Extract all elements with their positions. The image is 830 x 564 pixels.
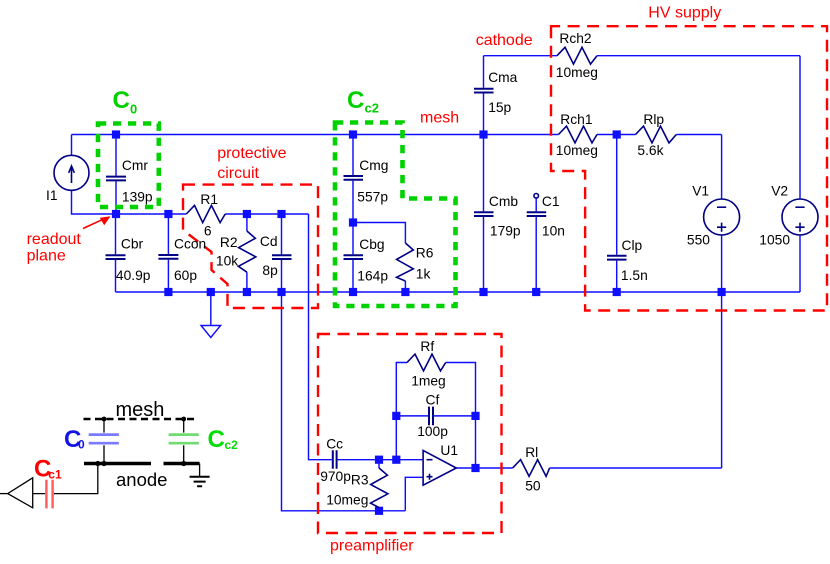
wire V2 top riser [799, 56, 801, 199]
svg-text:15p: 15p [488, 100, 511, 115]
svg-text:139p: 139p [122, 190, 153, 205]
voltage source V1 [704, 199, 740, 235]
capacitor Cbr [106, 255, 126, 259]
wire R3 bottom row [282, 292, 406, 511]
capacitor Clp [607, 256, 627, 260]
svg-text:0: 0 [78, 438, 85, 452]
readout plane arrow [83, 219, 103, 228]
svg-text:550: 550 [687, 232, 710, 247]
capacitor Cd [272, 255, 292, 259]
svg-text:c2: c2 [225, 438, 239, 452]
node output [471, 464, 479, 472]
wire Cma leads [483, 56, 485, 135]
mini capacitor Cc1 plates [46, 480, 52, 509]
resistor Rl [513, 460, 550, 477]
node Cf right [471, 412, 479, 420]
node bus Cd [277, 288, 285, 296]
resistor Rf [407, 354, 446, 371]
resistor R6 [397, 243, 414, 281]
svg-text:U1: U1 [440, 443, 458, 458]
wire bottom bus [116, 291, 801, 293]
svg-text:R3: R3 [351, 473, 369, 488]
resistor R2 [238, 231, 255, 272]
svg-text:cathode: cathode [476, 32, 533, 49]
red dashed box protective circuit [183, 185, 318, 308]
svg-text:readout: readout [27, 231, 82, 248]
svg-text:HV supply: HV supply [648, 4, 721, 21]
node R3 bottom [375, 507, 383, 515]
svg-text:10meg: 10meg [556, 65, 598, 80]
svg-text:I1: I1 [46, 188, 58, 203]
resistor R1 [186, 205, 225, 222]
resistor R3 [371, 468, 388, 508]
svg-text:10k: 10k [216, 254, 238, 269]
wire C1 leads [535, 198, 537, 292]
node bus R6 [401, 288, 409, 296]
ground symbol main [201, 326, 221, 338]
wire Cmr leads [115, 135, 117, 215]
wire op-amp plus riser [405, 477, 423, 511]
mini capacitor Cc2 plates [169, 435, 199, 444]
node readout Ccon top [164, 210, 172, 218]
node bus Ccon [164, 288, 172, 296]
svg-text:10meg: 10meg [326, 493, 368, 508]
svg-text:C: C [113, 87, 130, 114]
svg-text:5.6k: 5.6k [637, 143, 663, 158]
wire readout row [116, 213, 309, 215]
wire output row [456, 467, 721, 469]
red dashed box HV supply [551, 26, 827, 310]
wire Cc to op-amp minus [338, 459, 424, 461]
svg-text:Cc: Cc [326, 437, 343, 452]
wire Clp leads [616, 135, 618, 293]
svg-text:Cmb: Cmb [489, 194, 518, 209]
node bus R2 [243, 288, 251, 296]
svg-text:c2: c2 [365, 101, 379, 116]
svg-text:164p: 164p [357, 268, 388, 283]
svg-text:plane: plane [27, 248, 66, 265]
wire R6 branch [353, 223, 405, 293]
node bus Cbg [349, 288, 357, 296]
node Cmr top [112, 130, 120, 138]
svg-text:Cbg: Cbg [359, 237, 384, 252]
svg-text:179p: 179p [490, 224, 521, 239]
wire V1 top riser [721, 135, 723, 200]
wire Cc riser [309, 214, 332, 460]
wire R3 leads [378, 460, 380, 511]
capacitor Cmr [106, 177, 126, 181]
node bus Clp [613, 288, 621, 296]
wire Ccon leads [167, 214, 169, 292]
svg-text:mesh: mesh [116, 399, 165, 421]
green dashed box Cc2 [335, 123, 456, 307]
svg-text:557p: 557p [357, 189, 388, 204]
svg-text:Clp: Clp [622, 238, 643, 253]
svg-text:Rch1: Rch1 [560, 112, 592, 127]
wire Cf row [396, 415, 475, 417]
wire Rf loop [396, 363, 475, 469]
node readout R2 top [243, 210, 251, 218]
svg-text:100p: 100p [417, 424, 448, 439]
node bus ground [207, 288, 215, 296]
capacitor Cbg [344, 255, 364, 259]
svg-text:R6: R6 [416, 246, 434, 261]
svg-text:60p: 60p [174, 268, 197, 283]
MINI DIAGRAM [0, 399, 238, 508]
green dashed box C0 [98, 124, 159, 208]
svg-text:Cma: Cma [488, 70, 517, 85]
capacitor Cmb [474, 212, 494, 216]
mini earth ground [199, 464, 201, 477]
svg-text:c1: c1 [48, 468, 62, 482]
svg-text:40.9p: 40.9p [116, 268, 151, 283]
mini Cc2 riser [183, 419, 185, 464]
capacitor Cmg [344, 176, 364, 180]
svg-text:1meg: 1meg [411, 373, 446, 388]
mini C0 riser [103, 419, 105, 464]
mesh dashed line [84, 418, 198, 421]
svg-text:Ccon: Ccon [174, 237, 206, 252]
voltage source V2 [782, 199, 818, 235]
svg-text:8p: 8p [262, 263, 278, 278]
mini amplifier triangle [8, 478, 33, 508]
wire mesh row [72, 134, 722, 136]
svg-text:V1: V1 [692, 184, 709, 199]
svg-text:protective: protective [217, 145, 286, 162]
svg-text:Rch2: Rch2 [559, 31, 591, 46]
svg-text:1k: 1k [416, 266, 431, 281]
svg-text:mesh: mesh [420, 110, 459, 127]
node Rlp-Clp junction [613, 130, 621, 138]
wire ground stub [210, 292, 212, 326]
wire I1 leads [72, 135, 117, 215]
svg-text:Rf: Rf [420, 339, 434, 354]
node bus C1 [532, 288, 540, 296]
node Cmg top [349, 130, 357, 138]
svg-text:circuit: circuit [217, 165, 259, 182]
wire Cd leads [281, 214, 283, 292]
wire Cbg leads [352, 223, 354, 293]
capacitor Cc [333, 450, 337, 469]
wire V2 bottom riser [799, 235, 801, 292]
wire R2 leads [246, 214, 248, 292]
svg-text:1.5n: 1.5n [621, 268, 648, 283]
red dashed box preamplifier [318, 334, 502, 533]
node bus V1 [718, 288, 726, 296]
wire Cbr leads [115, 214, 117, 292]
mini capacitor C0 plates [89, 435, 119, 444]
node R3 top [375, 456, 383, 464]
svg-text:Rl: Rl [525, 445, 538, 460]
resistor Rlp [636, 126, 677, 143]
capacitor Cma [474, 89, 494, 93]
svg-text:C1: C1 [542, 194, 560, 209]
svg-text:10n: 10n [542, 224, 565, 239]
node Cmg-Cbg junction [349, 218, 357, 226]
node Cf left [392, 412, 400, 420]
svg-text:970p: 970p [320, 469, 351, 484]
svg-text:anode: anode [116, 469, 167, 490]
capacitor C1 [534, 194, 539, 199]
capacitor Ccon [158, 255, 178, 259]
node readout Cd top [277, 210, 285, 218]
capacitor Cf [429, 407, 433, 426]
wire cathode row [484, 55, 801, 57]
wire V1 bottom riser [721, 235, 723, 468]
svg-text:R1: R1 [200, 192, 218, 207]
svg-text:V2: V2 [771, 184, 788, 199]
wire Cmg leads [352, 135, 354, 223]
svg-text:Cf: Cf [426, 393, 440, 408]
svg-text:Cd: Cd [260, 234, 278, 249]
node minus input [392, 456, 400, 464]
svg-text:Rlp: Rlp [643, 112, 664, 127]
junction dots [95, 461, 100, 466]
svg-text:Cbr: Cbr [121, 237, 144, 252]
svg-text:preamplifier: preamplifier [330, 538, 414, 555]
anode pads [84, 462, 200, 466]
svg-text:10meg: 10meg [556, 143, 598, 158]
node readout Cmr bottom [112, 210, 120, 218]
resistor Rch1 [559, 126, 598, 143]
svg-text:R2: R2 [220, 235, 238, 250]
svg-text:Cmr: Cmr [122, 158, 148, 173]
svg-text:50: 50 [525, 479, 541, 494]
svg-text:0: 0 [130, 102, 137, 117]
svg-text:C: C [347, 87, 364, 114]
svg-text:6: 6 [204, 224, 212, 239]
svg-text:1050: 1050 [759, 232, 790, 247]
op-amp U1 [423, 450, 456, 485]
svg-text:Cmg: Cmg [359, 158, 388, 173]
mini Cc1 wire [33, 464, 98, 494]
node Cma bottom mesh [479, 130, 487, 138]
wire Cmb leads [483, 135, 485, 293]
current source I1 [54, 155, 89, 190]
node bus Cmb [479, 288, 487, 296]
resistor Rch2 [557, 47, 597, 64]
svg-text:C: C [208, 426, 225, 453]
